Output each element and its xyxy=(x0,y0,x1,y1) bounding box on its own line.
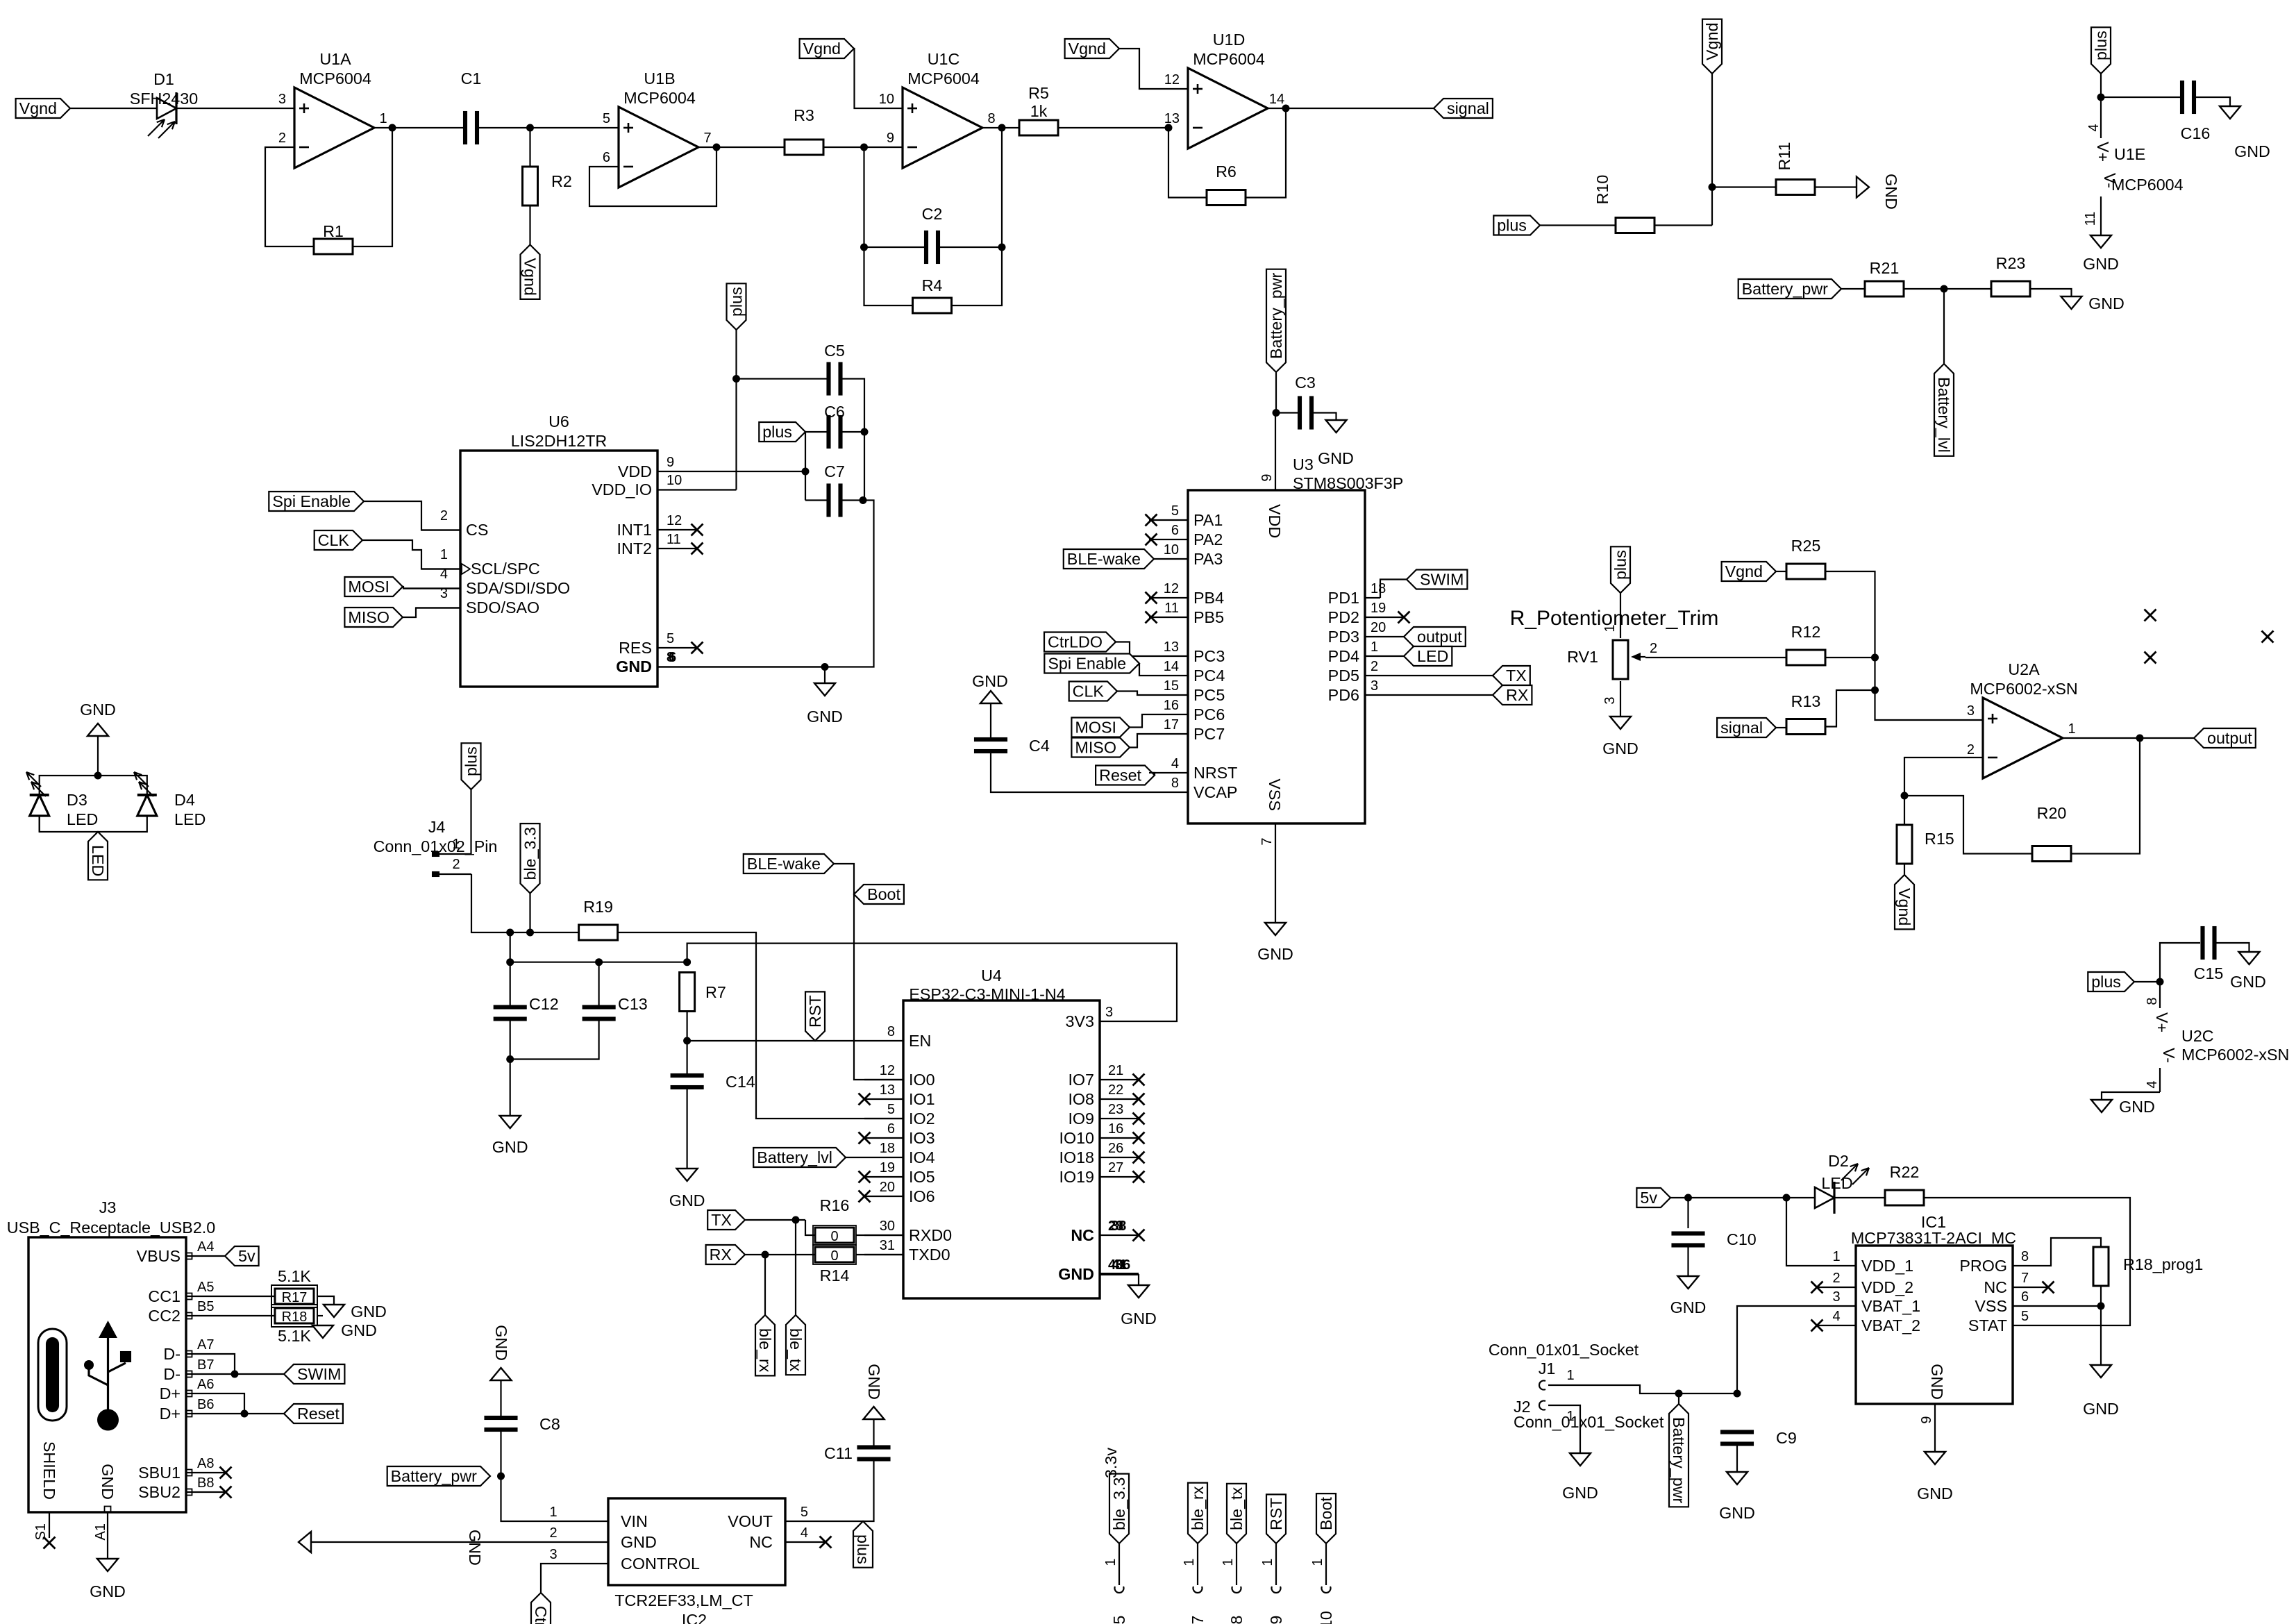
node xyxy=(683,1037,691,1045)
wire xyxy=(805,432,806,501)
svg-text:LED: LED xyxy=(67,810,98,828)
svg-text:MOSI: MOSI xyxy=(1075,719,1116,737)
svg-text:GND: GND xyxy=(80,701,116,719)
svg-text:C2: C2 xyxy=(922,205,943,223)
pin 5 RES xyxy=(657,647,697,648)
svg-text:1: 1 xyxy=(440,547,448,562)
svg-text:C13: C13 xyxy=(618,995,648,1013)
pin 2 PD5 (U3) xyxy=(1365,675,1404,676)
pin 13 PC3 (U3) xyxy=(1149,655,1188,657)
pin 20 PD3 (U3) xyxy=(1365,636,1404,637)
svg-text:3: 3 xyxy=(1602,696,1618,704)
no-connect X (IO10) xyxy=(1133,1132,1145,1144)
svg-text:16: 16 xyxy=(1108,1121,1123,1137)
no-connect X (IO1) xyxy=(859,1094,871,1105)
svg-text:VBUS: VBUS xyxy=(137,1247,181,1265)
svg-text:SHIELD: SHIELD xyxy=(40,1441,58,1500)
svg-text:9: 9 xyxy=(667,455,674,470)
svg-text:GND: GND xyxy=(99,1464,117,1500)
net flag plus (above C5) xyxy=(727,283,746,330)
pin 11 PB5 (U3) xyxy=(1149,617,1188,618)
node (U1A out) xyxy=(389,124,396,132)
svg-text:U1D: U1D xyxy=(1213,31,1246,49)
svg-text:IO19: IO19 xyxy=(1059,1168,1094,1186)
pin B6 D+ (J3) xyxy=(186,1413,225,1414)
svg-text:NC: NC xyxy=(749,1533,773,1551)
net flag Vgnd (R15) xyxy=(1895,875,1914,929)
svg-text:1: 1 xyxy=(2068,721,2075,737)
svg-text:R7: R7 xyxy=(705,983,726,1001)
svg-text:13: 13 xyxy=(1164,639,1179,655)
resistor R15 xyxy=(1897,825,1912,864)
svg-text:PC5: PC5 xyxy=(1193,686,1225,704)
wire xyxy=(1119,49,1188,89)
net flag Battery_pwr (battery) xyxy=(1669,1404,1689,1507)
svg-text:GND: GND xyxy=(1882,174,1900,210)
wire xyxy=(225,1315,274,1316)
wire xyxy=(510,932,687,962)
svg-text:V+: V+ xyxy=(2153,1012,2171,1032)
svg-text:7: 7 xyxy=(1259,837,1275,845)
resistor R18_prog1 xyxy=(2093,1247,2109,1286)
capacitor C7 xyxy=(827,484,831,517)
svg-text:ble_tx: ble_tx xyxy=(787,1328,805,1372)
svg-text:STM8S003F3P: STM8S003F3P xyxy=(1293,474,1403,492)
capacitor C16 xyxy=(2180,81,2184,114)
svg-text:VDD_1: VDD_1 xyxy=(1861,1257,1913,1275)
connector J9 Conn_01x01 (RST) xyxy=(1266,1494,1286,1543)
svg-text:R17: R17 xyxy=(282,1290,308,1305)
op-amp U2A MCP6002-xSN xyxy=(1983,698,2063,778)
svg-text:MCP6004: MCP6004 xyxy=(2111,176,2184,194)
svg-text:GND: GND xyxy=(90,1582,126,1600)
svg-text:ble_3.3: ble_3.3 xyxy=(521,827,539,880)
no-connect X xyxy=(2262,631,2274,643)
svg-text:8: 8 xyxy=(1171,776,1179,791)
svg-text:ble_tx: ble_tx xyxy=(1227,1487,1246,1530)
resistor R6 xyxy=(1207,190,1246,206)
wire xyxy=(842,431,864,433)
svg-text:plus: plus xyxy=(462,746,480,776)
svg-text:GND: GND xyxy=(492,1138,528,1156)
wire xyxy=(362,540,460,569)
svg-text:11: 11 xyxy=(2083,212,2098,226)
wire xyxy=(225,1413,284,1414)
capacitor C12 xyxy=(494,1005,527,1010)
resistor R14 0 xyxy=(813,1245,856,1264)
svg-text:plus: plus xyxy=(762,423,792,441)
capacitor C1 xyxy=(463,111,467,144)
svg-text:D-: D- xyxy=(163,1345,181,1363)
wire xyxy=(1654,224,1712,226)
power symbol GND (U4) xyxy=(1128,1285,1149,1298)
svg-text:5: 5 xyxy=(801,1505,808,1520)
svg-text:GND: GND xyxy=(865,1364,883,1400)
svg-text:C16: C16 xyxy=(2181,124,2211,142)
power symbol GND (RV1) xyxy=(1610,717,1631,729)
svg-text:1: 1 xyxy=(1260,1558,1275,1566)
wire xyxy=(225,1354,235,1374)
svg-text:B7: B7 xyxy=(197,1357,214,1373)
wire (3V3 rail) xyxy=(687,944,1177,1021)
svg-text:IO7: IO7 xyxy=(1068,1071,1094,1089)
no-connect X (IO18) xyxy=(1133,1152,1145,1164)
wire xyxy=(856,1234,903,1236)
power symbol GND (J2) xyxy=(1570,1453,1591,1466)
svg-text:IO0: IO0 xyxy=(909,1071,935,1089)
svg-text:signal: signal xyxy=(1447,99,1489,117)
no-connect X (IO3) xyxy=(859,1132,871,1144)
net flag Vgnd (below R2) xyxy=(521,245,540,299)
svg-text:plus: plus xyxy=(1497,217,1527,235)
wire xyxy=(1815,186,1857,187)
svg-text:R12: R12 xyxy=(1791,623,1821,641)
no-connect X (IO19) xyxy=(1133,1171,1145,1183)
svg-text:EN: EN xyxy=(909,1032,931,1050)
resistor R7 xyxy=(680,973,695,1012)
node xyxy=(1871,687,1879,694)
wire xyxy=(2100,1286,2102,1365)
node (U1D out) xyxy=(1282,105,1290,112)
svg-text:PC4: PC4 xyxy=(1193,667,1225,685)
power symbol GND (C10) xyxy=(1678,1276,1699,1289)
node xyxy=(762,1251,769,1259)
svg-text:GND: GND xyxy=(492,1325,510,1361)
svg-text:R18: R18 xyxy=(282,1309,308,1325)
pin A6 D+ (J3) xyxy=(186,1393,225,1394)
svg-text:30: 30 xyxy=(880,1219,895,1234)
svg-text:C14: C14 xyxy=(726,1073,755,1091)
wire xyxy=(1138,1274,1139,1285)
svg-text:1: 1 xyxy=(1566,1368,1574,1383)
capacitor C13 xyxy=(583,1005,616,1010)
net flag Spi Enable (PC4) xyxy=(1044,654,1139,673)
pin 8 VCAP (U3) xyxy=(1149,792,1188,793)
svg-text:plus: plus xyxy=(854,1534,872,1564)
power symbol GND (C9) xyxy=(1727,1472,1748,1484)
pin 5 VOUT (IC2) xyxy=(785,1461,874,1521)
svg-text:18: 18 xyxy=(880,1141,895,1156)
svg-text:Vgnd: Vgnd xyxy=(19,99,57,117)
svg-text:VDD: VDD xyxy=(618,462,652,480)
node xyxy=(1675,1390,1683,1398)
svg-text:4: 4 xyxy=(1171,756,1179,771)
wire (RV1 wiper to R12) xyxy=(1645,657,1786,658)
svg-text:23: 23 xyxy=(1108,1102,1123,1117)
svg-text:R10: R10 xyxy=(1593,175,1611,205)
capacitor C10 xyxy=(1672,1232,1705,1236)
no-connect X (IO8) xyxy=(1133,1094,1145,1105)
svg-text:14: 14 xyxy=(1164,659,1179,674)
svg-text:J3: J3 xyxy=(99,1198,117,1216)
wire xyxy=(1404,675,1493,676)
power symbol GND (R18_prog1) xyxy=(2090,1365,2111,1378)
wire xyxy=(1904,864,1905,875)
capacitor C2 xyxy=(924,231,928,264)
net flag Vgnd (input to D1) xyxy=(16,99,70,118)
svg-text:GND: GND xyxy=(1318,449,1354,467)
svg-text:PA1: PA1 xyxy=(1193,511,1223,529)
svg-text:1: 1 xyxy=(452,837,460,852)
svg-text:VDD_IO: VDD_IO xyxy=(592,480,652,499)
svg-text:Boot: Boot xyxy=(867,885,900,903)
capacitor C3 xyxy=(1298,396,1302,430)
net flag TX (PD5) xyxy=(1493,666,1530,685)
pin 9 GND (IC1) xyxy=(1934,1404,1936,1452)
wire xyxy=(864,246,925,248)
svg-text:26: 26 xyxy=(1108,1141,1123,1156)
wire xyxy=(1943,289,1945,364)
node xyxy=(998,244,1006,251)
svg-text:IO9: IO9 xyxy=(1068,1110,1094,1128)
pin 12 PB4 (U3) xyxy=(1149,597,1188,598)
wire xyxy=(1117,692,1149,696)
resistor R13 xyxy=(1786,719,1825,735)
svg-text:U1C: U1C xyxy=(928,50,960,68)
svg-text:Conn_01x01_Socket: Conn_01x01_Socket xyxy=(1514,1413,1664,1431)
svg-text:LED: LED xyxy=(1417,647,1448,665)
svg-text:22: 22 xyxy=(1108,1082,1123,1098)
svg-text:Vgnd: Vgnd xyxy=(1703,23,1721,60)
net flag signal (R13) xyxy=(1717,718,1776,737)
svg-text:GND: GND xyxy=(807,708,843,726)
svg-text:NC: NC xyxy=(1984,1278,2007,1296)
pin 9 VDD (U3) xyxy=(1275,413,1276,491)
svg-text:TX: TX xyxy=(1506,667,1527,685)
no-connect X (VBAT_2) xyxy=(1811,1320,1823,1332)
svg-text:IO4: IO4 xyxy=(909,1148,935,1166)
svg-text:U1A: U1A xyxy=(319,50,351,68)
pin 3 VBAT_1 (IC1) xyxy=(1737,1306,1856,1393)
svg-text:LED: LED xyxy=(89,845,107,876)
svg-text:BLE-wake: BLE-wake xyxy=(747,855,821,873)
svg-text:IC2: IC2 xyxy=(682,1611,707,1624)
svg-text:27: 27 xyxy=(1108,1160,1123,1175)
svg-text:J7: J7 xyxy=(1189,1616,1207,1624)
no-connect X (IC1 NC) xyxy=(2043,1282,2054,1294)
net flag BLE-wake (U4 IO0) xyxy=(744,854,834,873)
svg-text:R4: R4 xyxy=(922,276,943,294)
pin 9 VDD xyxy=(657,471,805,472)
svg-text:19: 19 xyxy=(880,1160,895,1175)
pin 6 PA2 (U3) xyxy=(1149,539,1188,540)
svg-text:VSS: VSS xyxy=(1266,778,1284,811)
svg-text:GND: GND xyxy=(1928,1364,1946,1400)
no-connect X (SBU1) xyxy=(220,1467,232,1479)
pin 19 PD2 (U3) xyxy=(1365,617,1404,618)
svg-text:R13: R13 xyxy=(1791,692,1821,710)
svg-text:CONTROL: CONTROL xyxy=(621,1555,700,1573)
no-connect X (PA2) xyxy=(1146,534,1157,546)
op-amp U1C MCP6004 xyxy=(903,87,982,168)
svg-text:18: 18 xyxy=(1371,581,1386,596)
net flag Battery_pwr (IC2) xyxy=(387,1466,490,1486)
svg-text:MOSI: MOSI xyxy=(348,578,389,596)
svg-text:12: 12 xyxy=(667,513,682,528)
no-connect X (IO6) xyxy=(859,1191,871,1203)
svg-text:Spi Enable: Spi Enable xyxy=(272,492,351,510)
svg-text:SDO/SAO: SDO/SAO xyxy=(466,598,539,617)
svg-text:3: 3 xyxy=(549,1547,557,1562)
node xyxy=(2097,1303,2105,1310)
power symbol GND (C16) xyxy=(2220,106,2240,119)
net flag CtrLDO (IC2) xyxy=(531,1593,551,1624)
svg-text:STAT: STAT xyxy=(1968,1316,2007,1334)
svg-text:IO6: IO6 xyxy=(909,1187,935,1205)
net flag MOSI (PC6) xyxy=(1071,718,1130,737)
svg-text:3V3: 3V3 xyxy=(1066,1012,1094,1030)
svg-text:IO2: IO2 xyxy=(909,1110,935,1128)
svg-text:D+: D+ xyxy=(160,1405,181,1423)
svg-text:D3: D3 xyxy=(67,791,87,809)
svg-text:2: 2 xyxy=(549,1525,557,1541)
no-connect X (SBU2) xyxy=(220,1487,232,1498)
svg-text:Reset: Reset xyxy=(297,1405,340,1423)
no-connect X (INT2) xyxy=(692,543,703,555)
svg-text:11: 11 xyxy=(667,532,681,547)
power symbol GND (U6) xyxy=(814,683,835,696)
svg-text:12: 12 xyxy=(1164,581,1179,596)
resistor R4 xyxy=(913,298,952,313)
svg-text:15: 15 xyxy=(1164,678,1179,694)
node xyxy=(860,244,868,251)
svg-text:PC7: PC7 xyxy=(1193,725,1225,743)
pin 1 SCL/SPC xyxy=(421,568,460,569)
wire xyxy=(225,1393,244,1414)
node xyxy=(2156,978,2164,986)
wire xyxy=(1825,657,1875,658)
svg-text:D2: D2 xyxy=(1828,1152,1849,1170)
node xyxy=(860,496,867,504)
pin 2 GND (IC2) xyxy=(311,1541,608,1543)
svg-text:J9: J9 xyxy=(1267,1616,1285,1624)
svg-text:2: 2 xyxy=(440,508,448,524)
pin 2 CS xyxy=(421,529,460,530)
net flag Reset (USB) xyxy=(284,1404,343,1423)
USB icon xyxy=(38,1329,67,1421)
svg-text:Battery_pwr: Battery_pwr xyxy=(1670,1417,1688,1504)
svg-text:2: 2 xyxy=(1650,641,1657,656)
pin NC (U4) xyxy=(1100,1234,1139,1236)
svg-text:3: 3 xyxy=(1371,678,1378,694)
op-amp U2C power pins V+/V- MCP6002-xSN xyxy=(2159,982,2161,1008)
resistor R25 xyxy=(1786,564,1825,579)
svg-text:VBAT_1: VBAT_1 xyxy=(1861,1297,1920,1315)
net flag LED (PD4) xyxy=(1404,646,1452,666)
resistor R16 0 xyxy=(813,1225,856,1245)
svg-text:R25: R25 xyxy=(1791,537,1821,555)
net flag RX (PD6) xyxy=(1493,685,1532,705)
svg-text:5v: 5v xyxy=(1640,1189,1657,1207)
net flag plus (RV1) xyxy=(1611,546,1630,593)
net flag Reset (NRST) xyxy=(1096,766,1155,785)
svg-text:Reset: Reset xyxy=(1099,767,1141,785)
wire xyxy=(1130,734,1149,748)
capacitor C11 xyxy=(857,1446,891,1450)
svg-text:0: 0 xyxy=(830,1248,838,1264)
wire (C4 to VCAP) xyxy=(991,753,1149,792)
svg-text:Conn_01x01_Socket: Conn_01x01_Socket xyxy=(1489,1341,1639,1359)
svg-text:Spi Enable: Spi Enable xyxy=(1048,655,1126,673)
op-amp U1A MCP6004 xyxy=(294,87,374,168)
wire xyxy=(2134,981,2160,982)
wire (U1D feedback) xyxy=(1168,128,1207,198)
wire xyxy=(1687,1248,1689,1277)
svg-text:U2A: U2A xyxy=(2008,660,2040,678)
svg-text:1: 1 xyxy=(379,111,387,126)
pin 16 IO10 (U4) xyxy=(1100,1137,1139,1139)
IC U3 STM8S003F3P xyxy=(1188,490,1365,823)
svg-text:2: 2 xyxy=(278,131,286,146)
node (U1C out) xyxy=(998,124,1006,132)
svg-text:GND: GND xyxy=(1121,1309,1157,1328)
svg-text:NC: NC xyxy=(1071,1226,1094,1244)
resistor R12 xyxy=(1786,650,1825,665)
wire xyxy=(1834,1197,1885,1198)
wire xyxy=(2030,289,2072,296)
wire xyxy=(2160,943,2200,982)
wire xyxy=(479,127,619,128)
svg-text:GND: GND xyxy=(2083,255,2119,273)
power symbol GND (U2C V-) xyxy=(2091,1100,2112,1112)
svg-text:GND: GND xyxy=(466,1530,484,1566)
net flag plus (U2C) xyxy=(2088,972,2134,991)
net flag plus (IC2 out) xyxy=(853,1521,873,1568)
pin 3 SDO/SAO xyxy=(416,607,460,608)
svg-text:C3: C3 xyxy=(1295,374,1316,392)
svg-text:4: 4 xyxy=(801,1525,808,1541)
svg-text:1: 1 xyxy=(1310,1558,1325,1566)
wire xyxy=(2217,943,2249,952)
no-connect X (IC2 NC) xyxy=(820,1537,832,1548)
svg-text:1k: 1k xyxy=(1030,102,1048,120)
pin 1 PD4 (U3) xyxy=(1365,655,1404,657)
svg-text:1: 1 xyxy=(1221,1558,1236,1566)
svg-text:Vgnd: Vgnd xyxy=(521,258,539,295)
svg-text:20: 20 xyxy=(880,1180,895,1195)
wire xyxy=(982,127,1019,128)
svg-text:D1: D1 xyxy=(153,70,174,88)
wire xyxy=(1540,224,1616,226)
svg-text:38: 38 xyxy=(1111,1219,1126,1234)
svg-text:INT2: INT2 xyxy=(617,539,652,558)
net flag ble_rx xyxy=(755,1315,775,1375)
svg-text:RST: RST xyxy=(1267,1498,1285,1530)
pin 5 IO2 (U4) xyxy=(864,1118,903,1119)
wire xyxy=(737,378,828,379)
wire xyxy=(1149,773,1155,776)
node xyxy=(497,1473,505,1480)
svg-text:CLK: CLK xyxy=(1073,683,1105,701)
wire xyxy=(1841,288,1865,290)
svg-text:J10: J10 xyxy=(1317,1611,1335,1624)
svg-text:GND: GND xyxy=(2088,294,2125,312)
connector J7 Conn_01x01 (ble_rx) xyxy=(1188,1483,1207,1543)
svg-text:VIN: VIN xyxy=(621,1512,648,1530)
svg-text:VDD: VDD xyxy=(1266,504,1284,538)
svg-text:21: 21 xyxy=(1108,1063,1123,1078)
svg-text:CC1: CC1 xyxy=(148,1287,181,1305)
wire xyxy=(823,147,903,148)
wire (C2/R4 loop left) xyxy=(864,147,913,305)
wire (LED bottom rail) xyxy=(40,816,147,832)
wire xyxy=(1825,690,1875,727)
power symbol GND (C15) xyxy=(2239,952,2260,964)
node xyxy=(506,1055,514,1063)
node xyxy=(241,1410,249,1418)
wire xyxy=(2071,738,2140,854)
svg-text:SBU1: SBU1 xyxy=(138,1464,181,1482)
